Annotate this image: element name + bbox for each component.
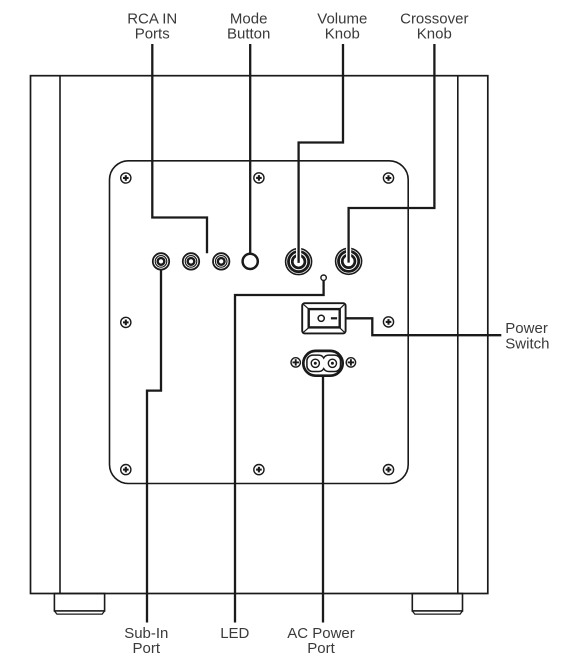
label: Sub-In Port xyxy=(124,625,168,657)
rear panel plate xyxy=(110,161,409,484)
label: Crossover Knob xyxy=(400,11,468,43)
wire: Crossover knob leader xyxy=(349,44,435,263)
svg-text:Port: Port xyxy=(133,640,161,657)
wire: Mode button leader xyxy=(249,44,251,253)
mode button xyxy=(243,254,258,269)
label: AC Power Port xyxy=(287,625,355,657)
RCA jack 2 xyxy=(183,253,199,269)
power switch xyxy=(302,303,345,333)
screw top-left xyxy=(121,173,131,183)
wire: Power switch leader xyxy=(346,318,502,335)
label: Mode Button xyxy=(227,11,270,43)
LED xyxy=(321,275,326,280)
wire: LED leader xyxy=(235,280,324,622)
wire: Volume knob leader xyxy=(299,44,343,263)
screw bottom-left xyxy=(121,465,131,475)
cabinet outline xyxy=(31,76,488,594)
svg-text:Port: Port xyxy=(307,640,335,657)
right foot xyxy=(412,594,462,615)
svg-text:Knob: Knob xyxy=(325,26,360,43)
svg-text:Power: Power xyxy=(505,320,548,337)
cabinet right inner edge xyxy=(457,76,459,593)
RCA jack 1 xyxy=(153,253,169,269)
screw mid-right xyxy=(383,317,393,327)
AC inlet screw left xyxy=(291,358,300,367)
crossover knob xyxy=(336,247,362,275)
label: Volume Knob xyxy=(317,11,367,43)
cabinet left inner edge xyxy=(59,76,61,593)
wire: Sub-In leader xyxy=(147,269,161,622)
RCA jack 3 xyxy=(213,253,229,269)
wire: RCA IN leader xyxy=(152,44,207,253)
AC power inlet xyxy=(303,351,342,376)
svg-text:Button: Button xyxy=(227,26,270,43)
label: LED xyxy=(220,625,249,642)
svg-text:Ports: Ports xyxy=(135,26,170,43)
screw top-middle xyxy=(254,173,264,183)
screw mid-left xyxy=(121,317,131,327)
wire: AC power leader xyxy=(322,375,324,623)
screw top-right xyxy=(383,173,393,183)
svg-text:Switch: Switch xyxy=(505,335,549,352)
label: RCA IN Ports xyxy=(127,11,177,43)
label: Power Switch xyxy=(505,320,549,353)
screw bottom-right xyxy=(383,465,393,475)
svg-text:LED: LED xyxy=(220,625,249,642)
AC inlet screw right xyxy=(346,358,355,367)
left foot xyxy=(54,594,104,615)
screw bottom-middle xyxy=(254,465,264,475)
volume knob xyxy=(286,247,312,275)
svg-text:Knob: Knob xyxy=(417,26,452,43)
